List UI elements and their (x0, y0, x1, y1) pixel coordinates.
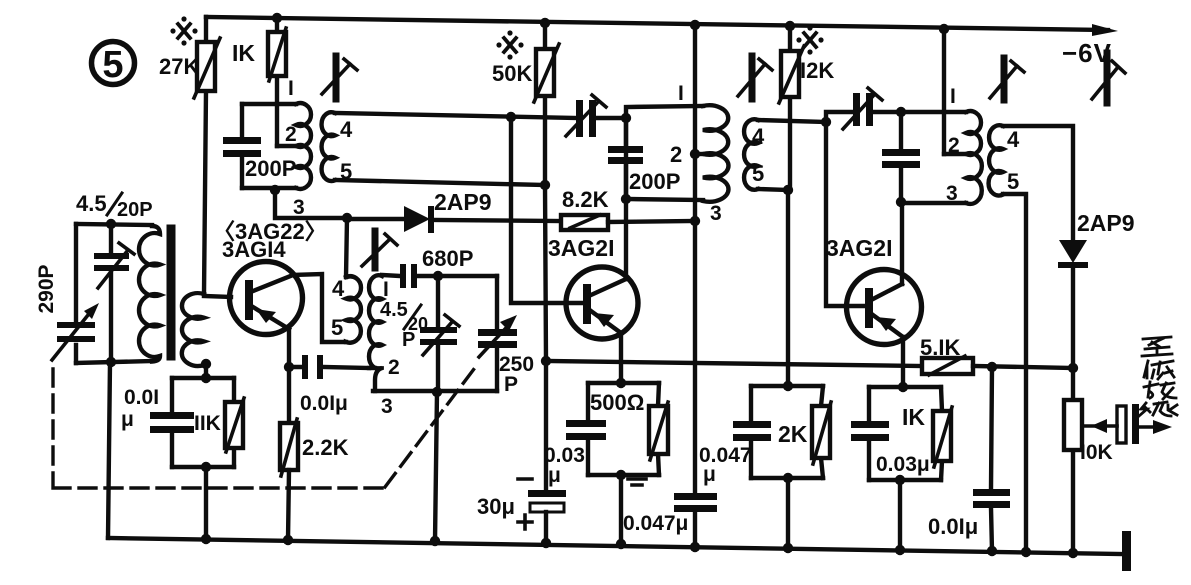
svg-text:I: I (678, 82, 684, 105)
node: emitter / 0.01u junction (284, 362, 294, 372)
svg-text:5: 5 (331, 315, 343, 340)
node: rail at 0.01u (987, 546, 997, 556)
node: rail at 1K network (895, 545, 905, 555)
wire: base lead 3AG14 (204, 296, 231, 297)
core-adjust arrow (osc coil) (362, 231, 397, 268)
svg-text:4.5: 4.5 (380, 299, 408, 321)
resistor 11K (225, 402, 243, 448)
svg-text:IK: IK (232, 40, 255, 66)
inductor L1 antenna coil (139, 226, 160, 362)
node: 500R network top (616, 378, 626, 388)
svg-text:8.2K: 8.2K (562, 187, 609, 212)
potentiometer 10K volume (1064, 368, 1117, 553)
wire: down to base of second 3AG21 (826, 122, 865, 306)
wire: osc tap2 joins coil (369, 366, 375, 370)
svg-text:20P: 20P (117, 199, 153, 221)
ground (signal) mark at 500R network (628, 479, 646, 485)
svg-text:P: P (504, 373, 518, 396)
capacitor 250P variable (osc gang) (478, 276, 534, 396)
node: 2K network top (783, 381, 793, 391)
wire: 1K network to ground rail (898, 480, 902, 550)
wire: 2K network to ground rail (786, 478, 790, 548)
svg-text:P: P (402, 329, 415, 351)
wire: IF2 secondary top to trimmer node (758, 120, 826, 122)
capacitor: IF3 tank cap (882, 112, 920, 202)
node: rail at 10K (1068, 548, 1078, 558)
wire: IF3 tank bottom (901, 201, 966, 205)
svg-text:0.03μ: 0.03μ (876, 453, 930, 476)
svg-text:4: 4 (332, 276, 345, 301)
svg-text:500Ω: 500Ω (590, 390, 644, 415)
node: rail at 2K network (783, 543, 793, 553)
node: rail junction at 12K (785, 21, 795, 31)
svg-text:50K: 50K (492, 61, 532, 86)
svg-text:200P: 200P (629, 169, 680, 194)
resistor 1K (IF1 feed) (232, 18, 286, 146)
asterisk mark for 12K (804, 33, 816, 47)
inductor: IF1 primary 1-2-3 (277, 103, 311, 219)
node: IF2 tank bottom left (621, 194, 631, 204)
wire: IF3 tank top across (901, 110, 966, 114)
wire: osc tank bottom (373, 389, 497, 393)
wire: 2.2K to ground rail (288, 470, 289, 540)
svg-text:3: 3 (293, 196, 305, 219)
wire: IF3 secondary top to detector (1003, 126, 1073, 240)
svg-text:3AG2I: 3AG2I (826, 235, 892, 261)
inductor L2 coupling coil (182, 293, 206, 366)
wire: coil bottom to RC network (204, 364, 208, 378)
wire: IF1 secondary top to trimmer / base feed (335, 113, 577, 118)
wire: rail feed down through IF2 (693, 25, 697, 547)
node: 500R network bottom (616, 470, 626, 480)
svg-text:3: 3 (381, 395, 393, 418)
wire: 30u to rail (544, 512, 548, 543)
node: IF2 pin3 (690, 216, 700, 226)
core-adjust arrow (IF1) (322, 56, 357, 101)
wire: IF1 secondary bottom to 50K line (335, 180, 545, 185)
wire: collector of first 3AG21 up to tank (624, 118, 628, 279)
capacitor 200P (IF1 tank) (223, 104, 296, 188)
svg-text:μ: μ (121, 408, 134, 431)
resistor 5.1K (detector load feed) (920, 335, 973, 375)
wire: 5.1K to detector output node (973, 366, 1073, 368)
wire: tank top across (438, 274, 497, 278)
asterisk mark for 27K (178, 24, 190, 38)
svg-text:2.2K: 2.2K (302, 435, 349, 460)
inductor: oscillator feedback winding 4-5 (331, 276, 361, 343)
svg-text:680P: 680P (422, 246, 473, 271)
wire: -6V top supply rail (206, 17, 1108, 30)
node: 1K network bottom (895, 475, 905, 485)
node: rail junction at 50K (540, 18, 550, 28)
dashed gang linkage (53, 365, 477, 488)
transistor Q3 3AG21 (second IF amp) (826, 235, 922, 345)
node: AGC line tap (541, 356, 551, 366)
node: mixer collector / IF1 pin3 / diode junction (342, 213, 352, 223)
node: rail at 500R (616, 539, 626, 549)
node: base feed junction (IF1 sec top) (506, 112, 516, 122)
resistor 12K (starred) (779, 26, 834, 190)
inductor: IF3 secondary 4-5 (989, 125, 1020, 195)
ground chassis bar (1122, 531, 1131, 571)
resistor 8.2K (collector-base) (561, 187, 609, 230)
capacitor 30u electrolytic (AGC) (477, 479, 566, 529)
wire: AGC line to 5.1K (546, 361, 922, 366)
core-adjust arrow (detector transformer) (1092, 53, 1125, 103)
svg-text:290P: 290P (35, 264, 58, 313)
svg-text:2: 2 (388, 356, 400, 379)
inductor: IF2 primary 1-2-3 (670, 82, 728, 225)
node: rail junction at 1K (272, 13, 282, 23)
node: rail junction at IF3 feed (939, 24, 949, 34)
svg-text:2: 2 (670, 142, 682, 167)
node: rail at 30u (541, 538, 551, 548)
wire: collector of 3AG14 to feedback winding (293, 274, 346, 342)
svg-text:3: 3 (946, 182, 958, 205)
svg-text:μ: μ (548, 464, 561, 487)
svg-text:IIK: IIK (194, 412, 221, 435)
node: ground rail at 2.2K (283, 535, 293, 545)
capacitor 4.5/20P osc trimmer (420, 276, 459, 391)
wire: IF1 pin3 to mixer collector node (275, 190, 347, 218)
resistor 2.2K (emitter) (280, 419, 349, 476)
wire: rail feed to IF3 tap2 (942, 29, 946, 154)
svg-text:4: 4 (752, 124, 765, 149)
wire: emitter down to 1K network (901, 337, 905, 387)
wire: 500R network to ground rail (619, 475, 623, 544)
wire: divider junction down to 2K network (786, 190, 790, 386)
svg-text:I2K: I2K (800, 58, 834, 83)
wire: emitter of first 3AG21 down (619, 333, 623, 383)
-6V arrowhead (1092, 24, 1118, 36)
wire: tank left branch (74, 224, 78, 363)
node: RC network bottom (201, 462, 211, 472)
node: IF2 tank top (621, 113, 631, 123)
svg-text:I0K: I0K (1080, 441, 1113, 464)
node: rail at secondary return (1021, 547, 1031, 557)
parallel network 0.01u + 11K (emitter-return of base coil) (121, 378, 244, 467)
node: IF2 tap2 (690, 149, 700, 159)
asterisk mark for 50K (504, 38, 516, 52)
svg-text:4.5: 4.5 (76, 191, 107, 216)
wire: collector up to IF3 tank (900, 202, 904, 284)
wire: down to base of first 3AG21 (511, 117, 583, 303)
node: detector output / volume top (1068, 363, 1078, 373)
resistor 27K (base bias, starred) (159, 17, 220, 294)
svg-text:0.0Iμ: 0.0Iμ (928, 514, 978, 539)
node: IF3 tank top (896, 107, 906, 117)
svg-text:0.0Iμ: 0.0Iμ (300, 392, 348, 415)
transistor Q2 3AG21 (first IF amp) (548, 235, 638, 339)
wire: IF1 tank top (242, 102, 296, 106)
wire: ground bottom rail (108, 538, 1121, 554)
node: IF3 tank bottom / collector node (896, 197, 906, 207)
wire: emitter of 3AG14 down (287, 330, 291, 423)
wire: antenna tank top (76, 224, 152, 225)
svg-text:IK: IK (902, 404, 925, 430)
inductor: IF1 secondary 4-5 (322, 112, 353, 184)
svg-text:0.0I: 0.0I (124, 386, 159, 409)
parallel network 500R + 0.03u (544, 383, 668, 487)
wire: tank bottom to ground rail (108, 362, 110, 538)
svg-text:2AP9: 2AP9 (434, 189, 492, 215)
wire: IF2 tank bottom (626, 199, 703, 200)
capacitor 0.047u (IF2 pin3 bypass) (623, 493, 717, 535)
svg-text:I: I (383, 278, 389, 301)
core-adjust arrow (IF2) (738, 56, 772, 100)
wire: IF2 secondary bottom to divider (758, 189, 788, 190)
node: tank bottom junction (432, 387, 442, 397)
node: rail junction at IF2 feed (690, 20, 700, 30)
svg-text:4: 4 (340, 117, 353, 142)
capacitor: IF2 input trimmer (566, 95, 626, 137)
svg-text:4: 4 (1007, 127, 1020, 152)
node: tank bottom junction (106, 357, 116, 367)
node: tank top junction (106, 219, 116, 229)
diode 2AP9 (detector) (1058, 210, 1135, 368)
parallel network 1K + 0.03u (emitter) (851, 387, 952, 480)
wire: winding4 top to collector node (346, 218, 347, 277)
svg-text:5.IK: 5.IK (920, 335, 960, 360)
node: IF1 bottom / pin3 (270, 185, 280, 195)
capacitor: IF3 input trimmer (826, 88, 901, 129)
inductor: IF2 secondary 4-5 (744, 119, 765, 190)
svg-text:30μ: 30μ (477, 494, 515, 519)
node: 1K network top (898, 382, 908, 392)
node: secondary bottom junction on 50K line (540, 180, 550, 190)
capacitor 0.01u (detector filter) (928, 367, 1010, 551)
resistor 50K (starred, AGC feed) (492, 23, 559, 491)
capacitor 0.01u (emitter to osc tap) (289, 355, 369, 415)
wire: 8.2K to IF2 pin 3 (608, 221, 695, 222)
node: osc tank top (433, 271, 443, 281)
ferrite rod (dashed bar) (167, 229, 176, 356)
node: 2K network bottom (783, 473, 793, 483)
svg-text:I: I (288, 77, 294, 100)
svg-text:2AP9: 2AP9 (1077, 210, 1135, 236)
capacitor 200P (IF2 tank) (608, 118, 680, 199)
node: rail at 0.047u (690, 542, 700, 552)
wire: IF2 tank top (626, 106, 703, 118)
svg-text:μ: μ (703, 463, 716, 486)
figure number badge 5 (92, 42, 135, 87)
svg-text:2K: 2K (778, 421, 808, 447)
diode 2AP9 (osc injection) (347, 189, 561, 233)
svg-text:27K: 27K (159, 54, 199, 79)
svg-text:I: I (950, 85, 956, 108)
wire: tank bottom to ground rail (435, 392, 437, 541)
svg-text:0.047μ: 0.047μ (623, 512, 688, 535)
node: divider junction 12K/2K (783, 185, 793, 195)
node: RC network top (201, 373, 211, 383)
wire: IF1 tank bottom (242, 186, 296, 190)
node: base feed junction (IF2 sec top) (821, 117, 831, 127)
svg-text:3AGI4: 3AGI4 (222, 237, 286, 262)
inductor: IF3 primary 1-2-3 (944, 85, 982, 205)
capacitor 4.5/20P antenna trimmer (76, 191, 153, 362)
node: 0.01u tap (987, 362, 997, 372)
capacitor: output coupling (electrolytic) (1117, 404, 1172, 444)
capacitor 0.01u (150, 412, 194, 419)
core-adjust arrow (IF3) (990, 58, 1024, 100)
svg-text:3: 3 (710, 202, 722, 225)
node: coupling coil bottom (201, 359, 211, 369)
svg-text:5: 5 (102, 44, 123, 86)
node: ground rail at osc tank (430, 536, 440, 546)
capacitor 680P (382, 246, 473, 288)
svg-text:5: 5 (752, 161, 764, 186)
svg-text:200P: 200P (245, 156, 296, 181)
node: ground rail at RC (201, 534, 211, 544)
svg-text:5: 5 (1007, 169, 1019, 194)
parallel network 2K + 0.047u (base divider lower leg) (699, 386, 831, 486)
svg-text:3AG2I: 3AG2I (548, 235, 614, 261)
svg-text:2: 2 (948, 134, 960, 157)
transistor Q1 3AG14 (213, 219, 327, 335)
label: to audio amplifier (Chinese, hand-drawn) (1139, 337, 1177, 416)
svg-text:2: 2 (285, 123, 297, 146)
capacitor 290P variable (35, 264, 99, 360)
wire: IF3 secondary bottom return (1003, 194, 1026, 552)
inductor: oscillator coil 1-2-3 (369, 275, 428, 418)
wire: antenna tank bottom (76, 361, 152, 363)
wire: RC bottom to ground rail (204, 467, 208, 539)
